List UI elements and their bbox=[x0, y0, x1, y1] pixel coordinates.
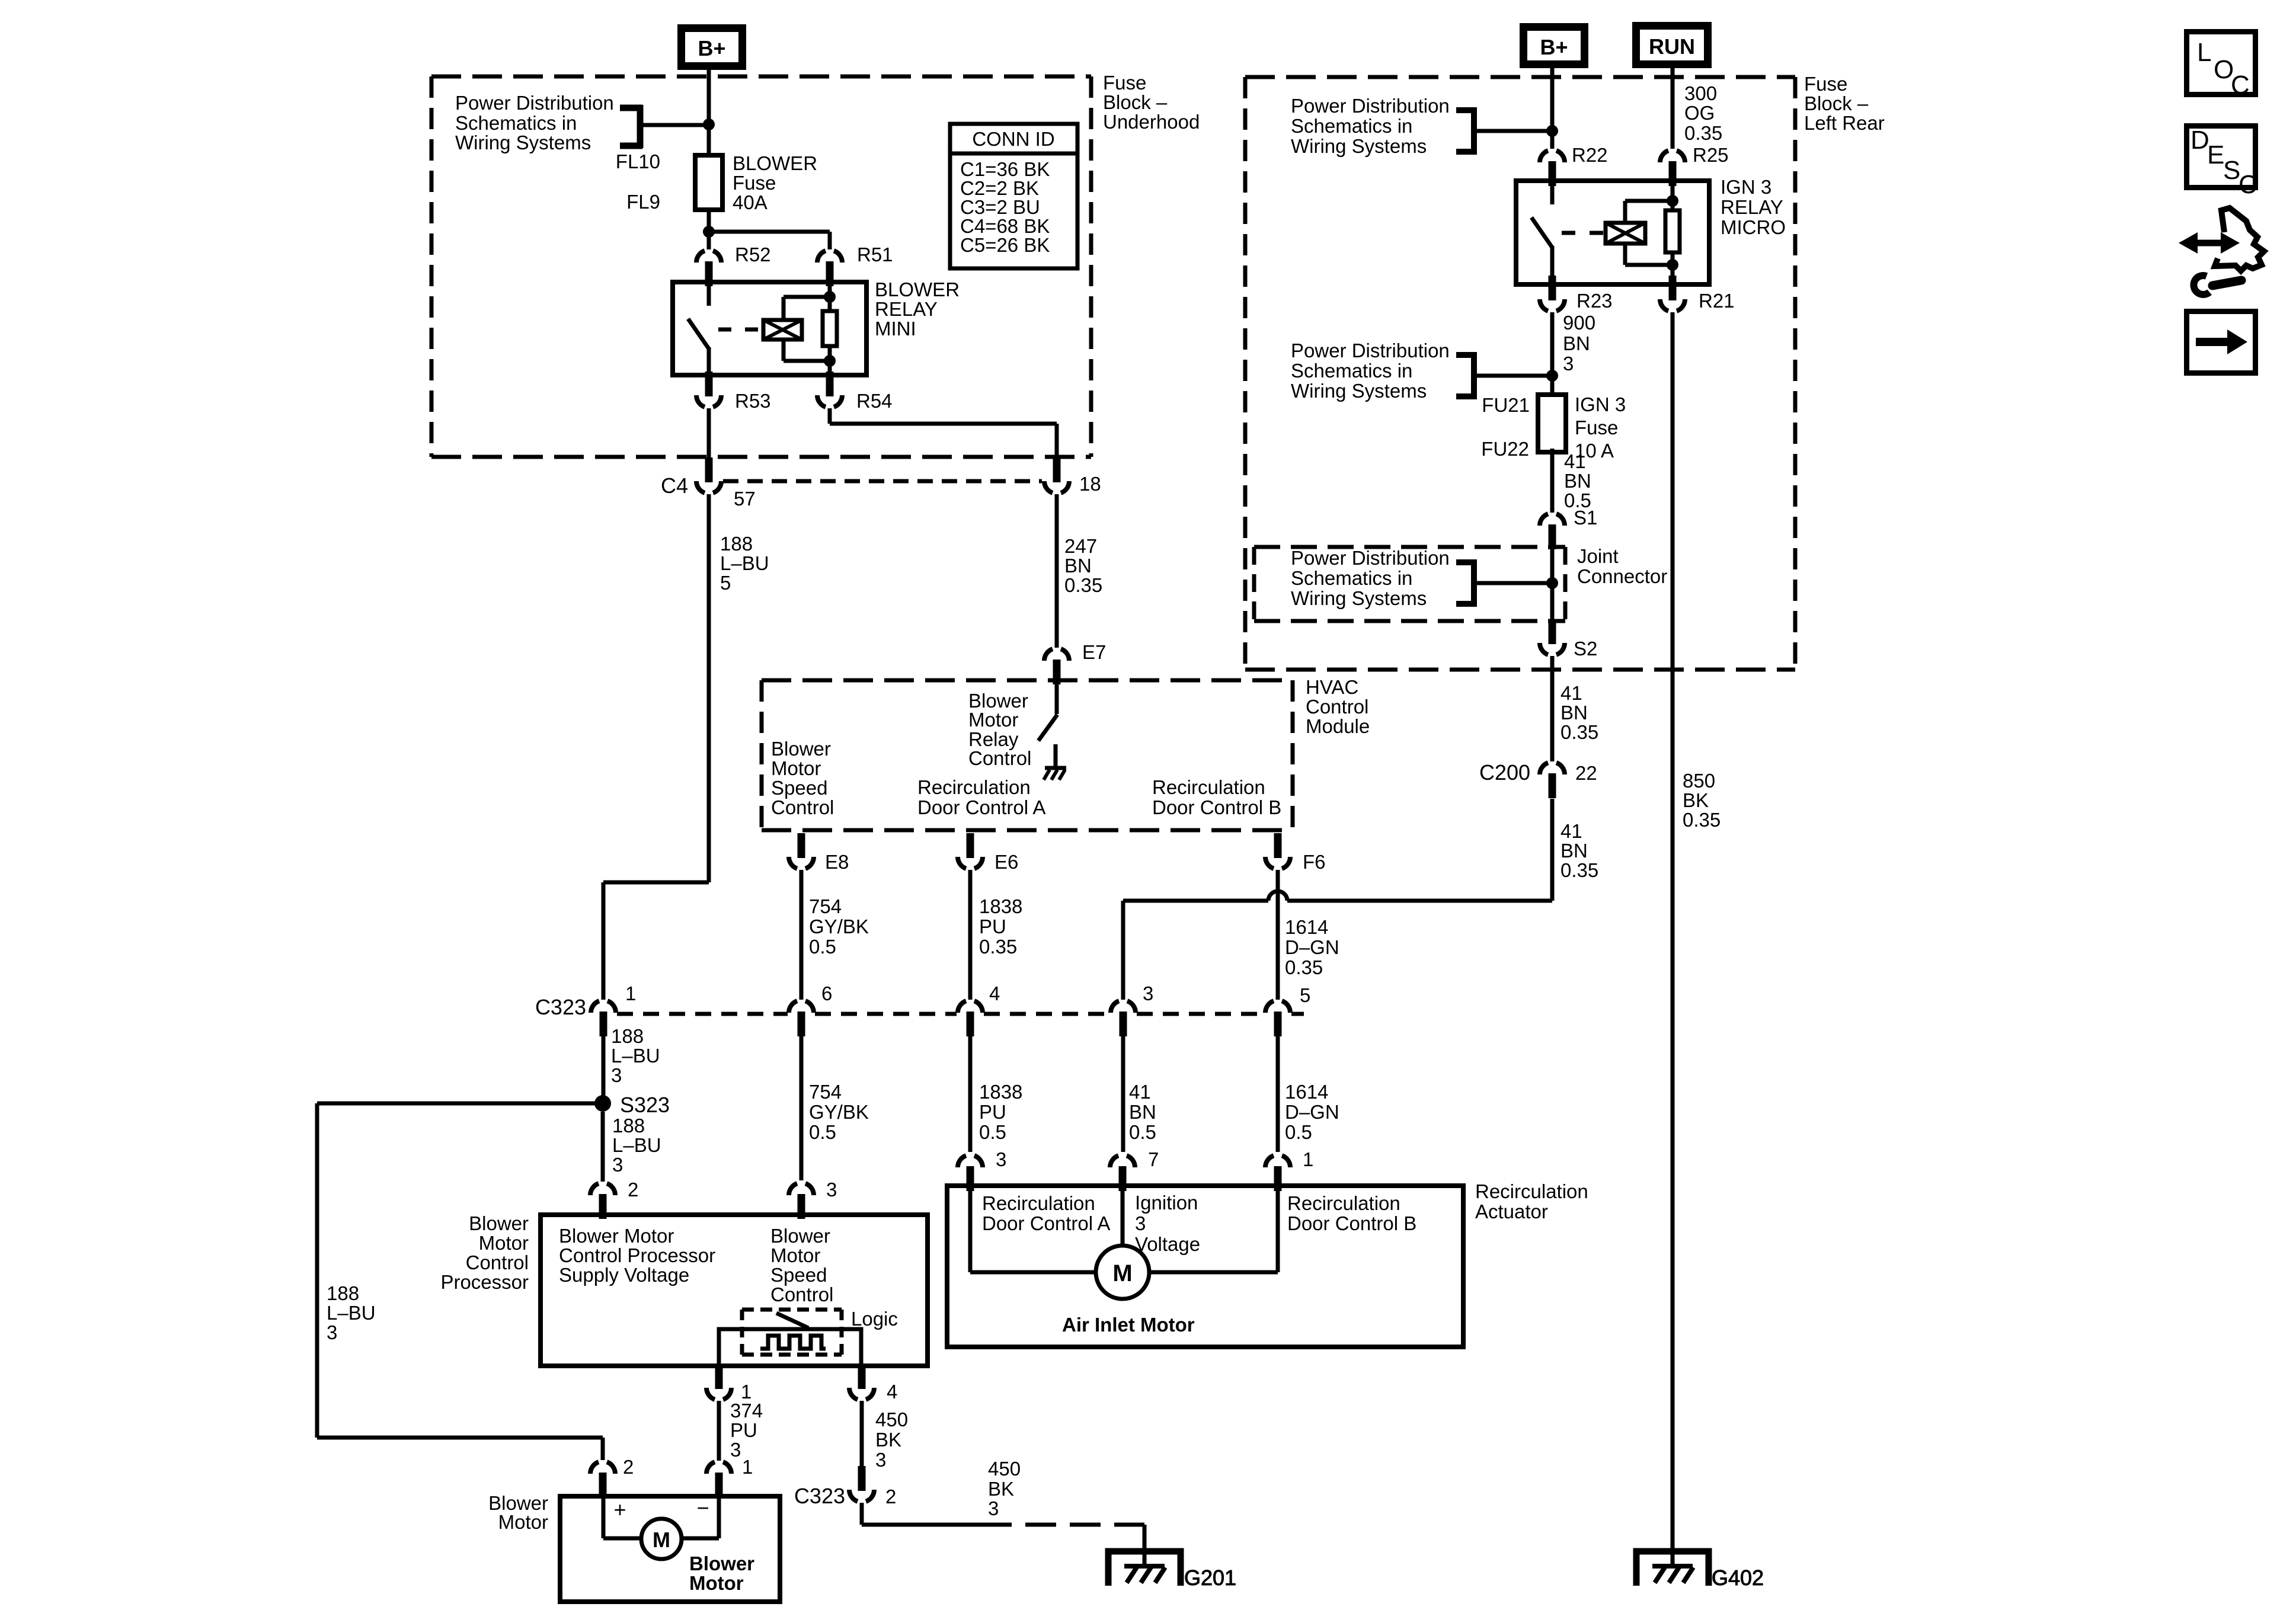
svg-text:3: 3 bbox=[730, 1439, 741, 1461]
svg-text:Control: Control bbox=[466, 1251, 529, 1273]
svg-text:RELAY: RELAY bbox=[1721, 196, 1783, 218]
svg-text:C: C bbox=[2231, 71, 2250, 100]
svg-text:18: 18 bbox=[1079, 473, 1101, 495]
svg-text:450: 450 bbox=[875, 1409, 908, 1430]
svg-text:4: 4 bbox=[887, 1381, 897, 1403]
svg-text:Recirculation: Recirculation bbox=[1287, 1192, 1400, 1214]
svg-text:0.35: 0.35 bbox=[979, 936, 1017, 958]
svg-text:BLOWER: BLOWER bbox=[733, 152, 817, 174]
svg-text:Door Control A: Door Control A bbox=[982, 1212, 1110, 1234]
svg-text:R22: R22 bbox=[1572, 144, 1608, 166]
svg-text:BN: BN bbox=[1129, 1101, 1156, 1123]
svg-text:PU: PU bbox=[979, 916, 1006, 937]
svg-text:C: C bbox=[2239, 170, 2257, 199]
svg-text:IGN 3: IGN 3 bbox=[1575, 393, 1626, 415]
svg-text:FU21: FU21 bbox=[1482, 394, 1530, 416]
svg-text:RUN: RUN bbox=[1649, 34, 1695, 59]
svg-text:3: 3 bbox=[611, 1064, 622, 1086]
svg-text:3: 3 bbox=[875, 1449, 886, 1471]
svg-text:Left Rear: Left Rear bbox=[1804, 112, 1885, 134]
svg-text:D–GN: D–GN bbox=[1285, 936, 1339, 958]
svg-text:C323: C323 bbox=[794, 1484, 845, 1508]
svg-text:Control Processor: Control Processor bbox=[559, 1244, 715, 1266]
svg-text:Voltage: Voltage bbox=[1135, 1233, 1200, 1255]
svg-text:Speed: Speed bbox=[771, 777, 827, 799]
svg-text:Motor: Motor bbox=[689, 1572, 744, 1594]
svg-text:BN: BN bbox=[1564, 470, 1591, 492]
svg-text:C5=26 BK: C5=26 BK bbox=[960, 234, 1050, 256]
svg-text:Logic: Logic bbox=[851, 1308, 898, 1330]
svg-text:1838: 1838 bbox=[979, 1081, 1022, 1103]
svg-text:Wiring Systems: Wiring Systems bbox=[1291, 135, 1427, 157]
svg-text:6: 6 bbox=[821, 982, 832, 1004]
svg-text:0.35: 0.35 bbox=[1684, 122, 1722, 144]
svg-text:Wiring Systems: Wiring Systems bbox=[1291, 380, 1427, 402]
svg-text:BK: BK bbox=[988, 1478, 1014, 1500]
svg-text:22: 22 bbox=[1575, 762, 1597, 784]
svg-text:1: 1 bbox=[742, 1456, 753, 1478]
svg-text:MINI: MINI bbox=[875, 318, 916, 340]
svg-text:3: 3 bbox=[1135, 1212, 1146, 1234]
svg-text:Motor: Motor bbox=[968, 709, 1018, 731]
svg-text:900: 900 bbox=[1563, 312, 1595, 334]
svg-text:188: 188 bbox=[720, 533, 753, 555]
svg-text:188: 188 bbox=[611, 1025, 644, 1047]
svg-text:FU22: FU22 bbox=[1481, 438, 1529, 460]
svg-text:Ignition: Ignition bbox=[1135, 1192, 1198, 1214]
svg-text:2: 2 bbox=[885, 1486, 896, 1507]
svg-text:Block –: Block – bbox=[1103, 91, 1168, 113]
svg-text:41: 41 bbox=[1564, 450, 1586, 472]
svg-text:247: 247 bbox=[1064, 535, 1097, 557]
svg-text:L–BU: L–BU bbox=[611, 1045, 660, 1067]
svg-text:L–BU: L–BU bbox=[612, 1134, 661, 1156]
svg-text:L–BU: L–BU bbox=[327, 1302, 376, 1324]
svg-text:L–BU: L–BU bbox=[720, 552, 769, 574]
svg-text:R23: R23 bbox=[1576, 290, 1613, 312]
svg-text:57: 57 bbox=[734, 488, 756, 510]
svg-text:+: + bbox=[613, 1497, 626, 1522]
svg-text:Motor: Motor bbox=[771, 757, 821, 779]
svg-text:Underhood: Underhood bbox=[1103, 111, 1200, 133]
svg-text:Motor: Motor bbox=[479, 1232, 529, 1254]
svg-text:Door Control B: Door Control B bbox=[1287, 1212, 1416, 1234]
svg-text:C323: C323 bbox=[535, 995, 586, 1019]
svg-text:Wiring Systems: Wiring Systems bbox=[1291, 587, 1427, 609]
svg-text:S1: S1 bbox=[1574, 507, 1597, 529]
svg-text:Schematics in: Schematics in bbox=[1291, 115, 1412, 137]
svg-text:M: M bbox=[1112, 1260, 1132, 1286]
svg-text:E6: E6 bbox=[994, 851, 1018, 873]
svg-text:RELAY: RELAY bbox=[875, 298, 938, 320]
svg-text:850: 850 bbox=[1683, 770, 1715, 792]
svg-text:OG: OG bbox=[1684, 102, 1715, 124]
svg-text:450: 450 bbox=[988, 1458, 1021, 1480]
svg-text:B+: B+ bbox=[1540, 35, 1568, 59]
svg-text:Air Inlet Motor: Air Inlet Motor bbox=[1062, 1314, 1195, 1336]
svg-text:1: 1 bbox=[625, 982, 636, 1004]
svg-text:E7: E7 bbox=[1082, 641, 1106, 663]
svg-text:188: 188 bbox=[612, 1115, 645, 1137]
svg-text:D–GN: D–GN bbox=[1285, 1101, 1339, 1123]
svg-text:0.5: 0.5 bbox=[1129, 1121, 1156, 1143]
svg-text:Door Control A: Door Control A bbox=[917, 796, 1045, 818]
svg-text:374: 374 bbox=[730, 1400, 763, 1422]
svg-text:G402: G402 bbox=[1712, 1566, 1764, 1590]
svg-text:2: 2 bbox=[623, 1456, 634, 1478]
svg-text:Power Distribution: Power Distribution bbox=[455, 92, 614, 114]
svg-text:Control: Control bbox=[770, 1283, 833, 1305]
svg-text:Joint: Joint bbox=[1577, 545, 1619, 567]
svg-text:7: 7 bbox=[1148, 1148, 1159, 1170]
svg-text:Speed: Speed bbox=[770, 1264, 827, 1286]
svg-text:0.35: 0.35 bbox=[1285, 956, 1323, 978]
svg-text:0.35: 0.35 bbox=[1683, 809, 1721, 831]
svg-text:Recirculation: Recirculation bbox=[1475, 1180, 1588, 1202]
svg-text:Fuse: Fuse bbox=[1804, 73, 1847, 95]
svg-text:754: 754 bbox=[809, 895, 842, 917]
svg-text:R21: R21 bbox=[1699, 290, 1735, 312]
svg-text:BN: BN bbox=[1064, 555, 1092, 577]
svg-text:5: 5 bbox=[720, 572, 731, 594]
svg-text:R51: R51 bbox=[857, 244, 893, 265]
svg-text:1838: 1838 bbox=[979, 895, 1022, 917]
svg-text:S323: S323 bbox=[620, 1093, 670, 1117]
svg-text:BLOWER: BLOWER bbox=[875, 279, 960, 300]
svg-text:41: 41 bbox=[1560, 682, 1582, 704]
svg-text:Wiring Systems: Wiring Systems bbox=[455, 132, 591, 153]
svg-text:BN: BN bbox=[1560, 840, 1588, 862]
svg-text:0.5: 0.5 bbox=[979, 1121, 1006, 1143]
svg-text:Control: Control bbox=[771, 796, 834, 818]
svg-text:F6: F6 bbox=[1303, 851, 1326, 873]
svg-text:0.5: 0.5 bbox=[809, 1121, 836, 1143]
svg-text:Recirculation: Recirculation bbox=[917, 776, 1031, 798]
svg-text:Schematics in: Schematics in bbox=[455, 112, 577, 134]
svg-text:1614: 1614 bbox=[1285, 916, 1328, 938]
svg-text:E8: E8 bbox=[825, 851, 849, 873]
svg-text:Control: Control bbox=[968, 747, 1031, 769]
svg-text:GY/BK: GY/BK bbox=[809, 916, 869, 937]
svg-text:Blower: Blower bbox=[771, 738, 831, 760]
svg-text:PU: PU bbox=[979, 1101, 1006, 1123]
svg-text:Fuse: Fuse bbox=[1103, 72, 1146, 94]
svg-text:R54: R54 bbox=[856, 390, 893, 412]
svg-text:C4: C4 bbox=[661, 473, 688, 498]
svg-text:3: 3 bbox=[988, 1497, 999, 1519]
svg-text:FL10: FL10 bbox=[616, 151, 660, 172]
svg-text:41: 41 bbox=[1129, 1081, 1151, 1103]
svg-text:MICRO: MICRO bbox=[1721, 216, 1786, 238]
svg-text:BN: BN bbox=[1563, 332, 1590, 354]
svg-text:3: 3 bbox=[612, 1154, 623, 1176]
svg-text:0.35: 0.35 bbox=[1064, 574, 1102, 596]
svg-text:G201: G201 bbox=[1184, 1566, 1236, 1590]
svg-text:188: 188 bbox=[327, 1282, 359, 1304]
svg-text:BN: BN bbox=[1560, 702, 1588, 724]
svg-text:L: L bbox=[2197, 38, 2211, 67]
svg-text:300: 300 bbox=[1684, 82, 1717, 104]
svg-text:S2: S2 bbox=[1574, 638, 1597, 660]
svg-text:Blower: Blower bbox=[469, 1212, 529, 1234]
svg-text:3: 3 bbox=[996, 1148, 1006, 1170]
svg-text:IGN 3: IGN 3 bbox=[1721, 176, 1771, 198]
svg-text:Power Distribution: Power Distribution bbox=[1291, 340, 1450, 361]
svg-text:Supply Voltage: Supply Voltage bbox=[559, 1264, 689, 1286]
svg-text:754: 754 bbox=[809, 1081, 842, 1103]
svg-text:HVAC: HVAC bbox=[1306, 676, 1358, 698]
svg-text:Recirculation: Recirculation bbox=[982, 1192, 1095, 1214]
svg-text:M: M bbox=[653, 1528, 670, 1552]
svg-text:R25: R25 bbox=[1693, 144, 1729, 166]
svg-text:0.35: 0.35 bbox=[1560, 859, 1598, 881]
svg-text:1: 1 bbox=[1303, 1148, 1313, 1170]
svg-text:B+: B+ bbox=[698, 36, 725, 60]
svg-text:Motor: Motor bbox=[770, 1244, 820, 1266]
svg-text:Recirculation: Recirculation bbox=[1152, 776, 1265, 798]
svg-text:Fuse: Fuse bbox=[1575, 417, 1618, 438]
svg-text:Schematics in: Schematics in bbox=[1291, 360, 1412, 382]
svg-text:Actuator: Actuator bbox=[1475, 1201, 1548, 1222]
svg-text:D: D bbox=[2191, 126, 2209, 155]
svg-text:CONN ID: CONN ID bbox=[972, 128, 1054, 150]
svg-text:Blower Motor: Blower Motor bbox=[559, 1225, 674, 1247]
svg-text:Power Distribution: Power Distribution bbox=[1291, 547, 1450, 569]
svg-text:FL9: FL9 bbox=[626, 191, 660, 213]
svg-text:1614: 1614 bbox=[1285, 1081, 1328, 1103]
svg-text:Block –: Block – bbox=[1804, 92, 1869, 114]
svg-text:Control: Control bbox=[1306, 696, 1368, 718]
svg-text:S: S bbox=[2223, 156, 2240, 185]
svg-text:3: 3 bbox=[327, 1321, 337, 1343]
svg-text:Door Control B: Door Control B bbox=[1152, 796, 1281, 818]
svg-text:GY/BK: GY/BK bbox=[809, 1101, 869, 1123]
svg-text:Fuse: Fuse bbox=[733, 172, 776, 194]
svg-text:41: 41 bbox=[1560, 820, 1582, 842]
svg-text:C200: C200 bbox=[1479, 760, 1530, 785]
svg-text:Processor: Processor bbox=[440, 1271, 529, 1293]
svg-text:40A: 40A bbox=[733, 191, 768, 213]
svg-text:PU: PU bbox=[730, 1419, 757, 1441]
svg-text:0.5: 0.5 bbox=[1285, 1121, 1312, 1143]
svg-text:2: 2 bbox=[628, 1179, 638, 1201]
svg-text:5: 5 bbox=[1300, 984, 1310, 1006]
svg-text:3: 3 bbox=[1563, 353, 1574, 375]
svg-text:Connector: Connector bbox=[1577, 565, 1667, 587]
svg-text:E: E bbox=[2207, 140, 2224, 169]
svg-text:4: 4 bbox=[989, 982, 1000, 1004]
svg-text:0.5: 0.5 bbox=[809, 936, 836, 958]
svg-text:BK: BK bbox=[1683, 789, 1709, 811]
svg-text:3: 3 bbox=[826, 1179, 837, 1201]
svg-text:R52: R52 bbox=[735, 244, 771, 265]
svg-text:Blower: Blower bbox=[689, 1553, 754, 1574]
svg-text:Module: Module bbox=[1306, 715, 1370, 737]
svg-text:Blower: Blower bbox=[770, 1225, 830, 1247]
svg-text:R53: R53 bbox=[735, 390, 771, 412]
svg-text:Power Distribution: Power Distribution bbox=[1291, 95, 1450, 117]
svg-text:0.35: 0.35 bbox=[1560, 721, 1598, 743]
svg-text:BK: BK bbox=[875, 1429, 901, 1451]
svg-text:Motor: Motor bbox=[498, 1511, 548, 1533]
svg-text:3: 3 bbox=[1143, 982, 1153, 1004]
svg-text:Schematics in: Schematics in bbox=[1291, 567, 1412, 589]
svg-text:−: − bbox=[696, 1496, 709, 1520]
